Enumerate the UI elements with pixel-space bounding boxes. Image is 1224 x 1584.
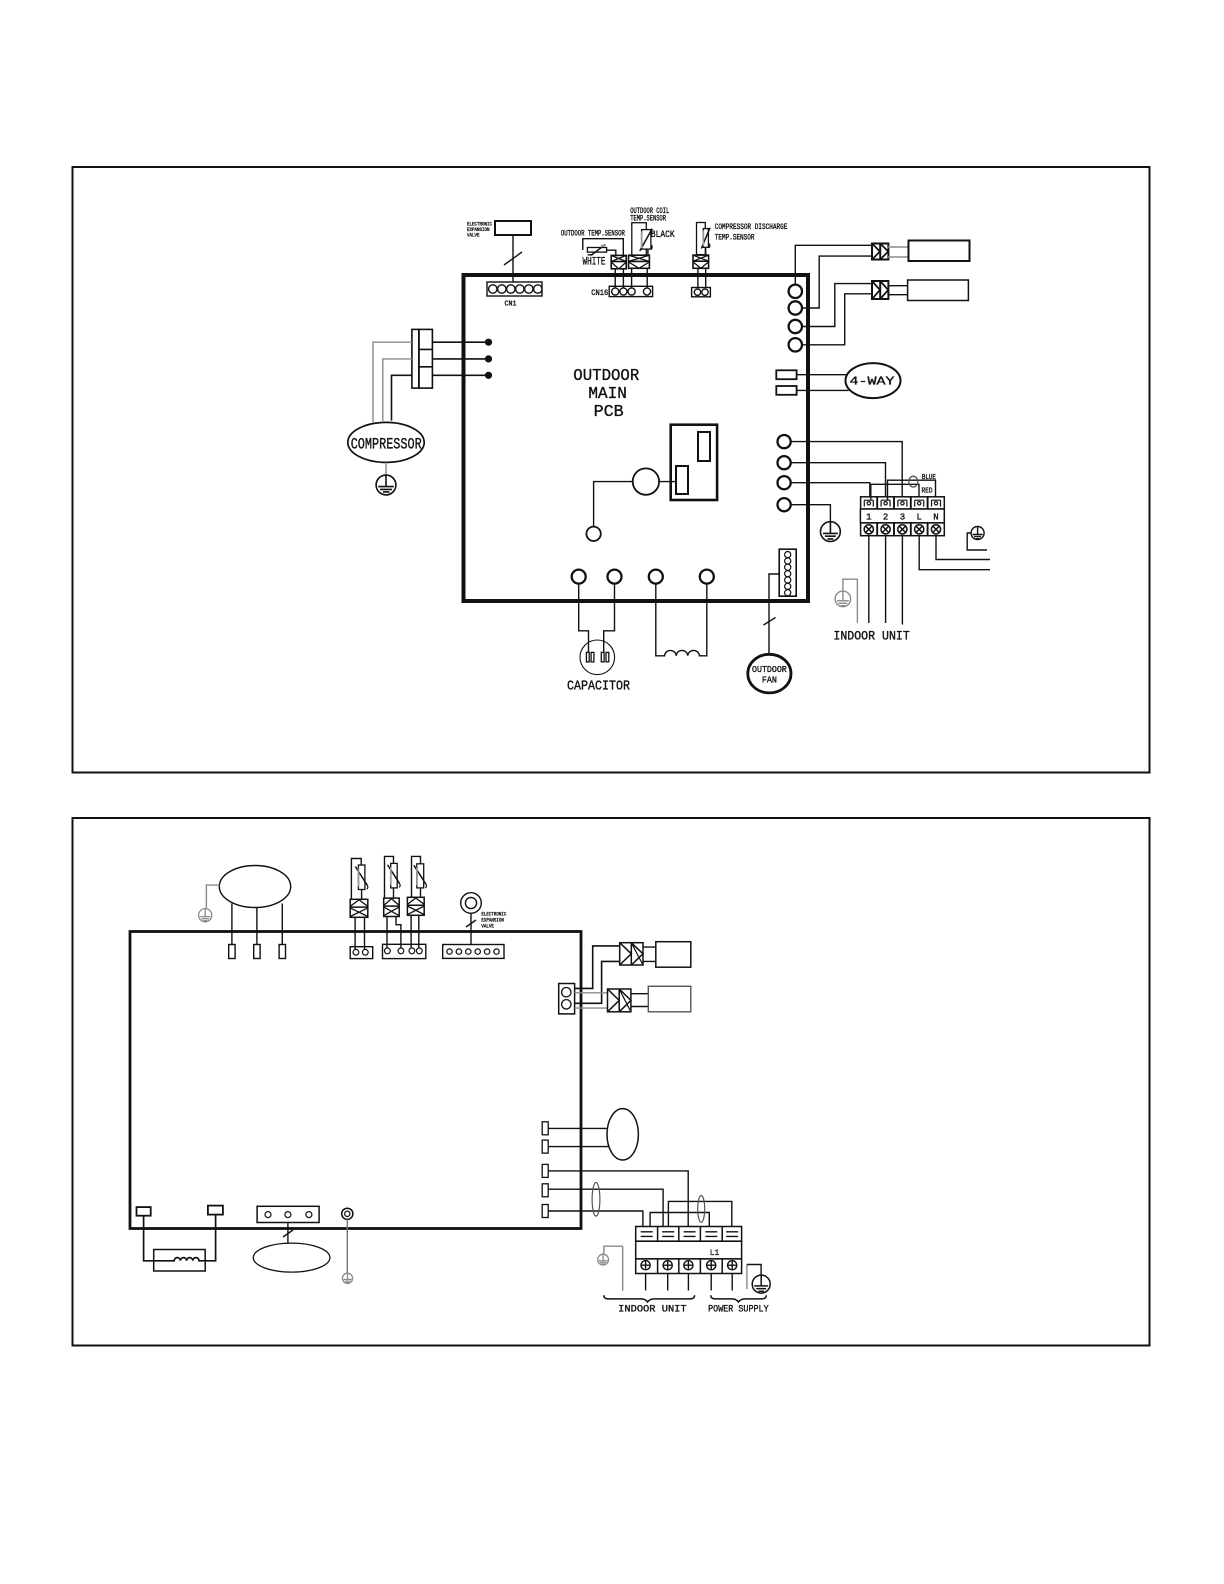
svg-text:OUTDOOR: OUTDOOR: [752, 665, 787, 675]
svg-text:VALVE: VALVE: [467, 232, 480, 239]
svg-text:WHITE: WHITE: [583, 257, 606, 269]
svg-text:BLUE: BLUE: [922, 474, 936, 482]
svg-text:3: 3: [900, 513, 905, 523]
svg-text:VALVE: VALVE: [481, 923, 494, 930]
svg-text:2: 2: [883, 513, 888, 523]
svg-text:COMPRESSOR DISCHARGE: COMPRESSOR DISCHARGE: [715, 223, 788, 232]
svg-text:1: 1: [866, 513, 871, 523]
svg-text:L1: L1: [710, 1248, 720, 1258]
svg-text:L: L: [916, 513, 921, 523]
svg-text:OUTDOOR TEMP.SENSOR: OUTDOOR TEMP.SENSOR: [561, 229, 625, 238]
svg-text:INDOOR UNIT: INDOOR UNIT: [833, 629, 910, 643]
svg-text:FAN: FAN: [762, 676, 777, 686]
svg-text:TEMP.SENSOR: TEMP.SENSOR: [715, 234, 755, 243]
svg-text:BLACK: BLACK: [651, 230, 675, 241]
svg-text:CN1: CN1: [505, 301, 517, 309]
svg-text:MAIN: MAIN: [588, 385, 627, 404]
svg-text:INDOOR UNIT: INDOOR UNIT: [618, 1303, 687, 1315]
svg-text:POWER SUPPLY: POWER SUPPLY: [708, 1303, 769, 1315]
svg-text:CN16: CN16: [591, 289, 608, 298]
svg-text:CAPACITOR: CAPACITOR: [567, 680, 630, 695]
svg-text:RED: RED: [922, 488, 933, 496]
svg-text:N: N: [933, 513, 938, 523]
svg-text:PCB: PCB: [594, 403, 624, 422]
svg-text:TEMP.SENSOR: TEMP.SENSOR: [630, 215, 666, 224]
svg-text:4-WAY: 4-WAY: [850, 376, 895, 389]
svg-text:COMPRESSOR: COMPRESSOR: [351, 436, 422, 454]
svg-text:OUTDOOR: OUTDOOR: [573, 367, 639, 386]
